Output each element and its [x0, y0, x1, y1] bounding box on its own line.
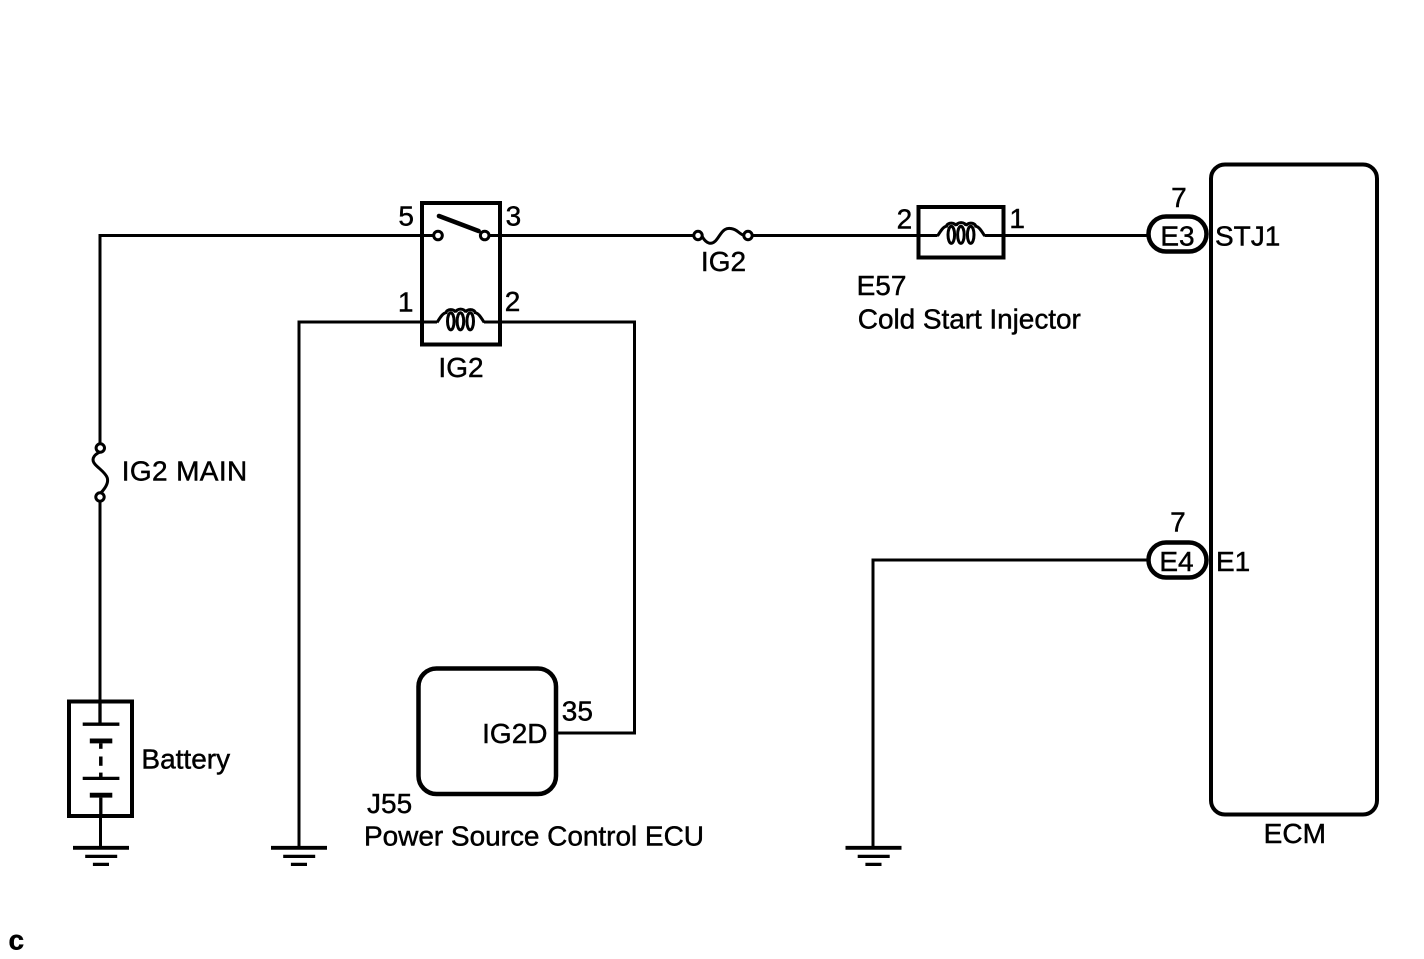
- wire fuse IG2 to E57 pin 2: [752, 234, 918, 237]
- fuse IG2 MAIN (vertical): [93, 444, 108, 501]
- svg-text:IG2 MAIN: IG2 MAIN: [122, 456, 248, 487]
- svg-text:IG2: IG2: [438, 352, 483, 383]
- fuse IG2 (horizontal): [694, 228, 752, 243]
- E57 cold start injector box: [919, 207, 1004, 258]
- svg-text:7: 7: [1170, 507, 1186, 538]
- svg-text:E3: E3: [1160, 221, 1194, 252]
- svg-text:Power Source Control ECU: Power Source Control ECU: [364, 820, 704, 851]
- svg-text:5: 5: [398, 201, 414, 232]
- relay coil (between pins 1 and 2): [422, 309, 500, 330]
- svg-text:7: 7: [1171, 182, 1187, 213]
- svg-text:J55: J55: [367, 788, 412, 819]
- svg-text:STJ1: STJ1: [1215, 221, 1280, 252]
- battery box: [69, 702, 132, 817]
- svg-text:E57: E57: [857, 270, 907, 301]
- wire battery positive to relay pin 5 (left vertical + top horizontal): [100, 236, 422, 444]
- wire ECM E4 connector to ground: [873, 560, 1147, 847]
- svg-text:2: 2: [897, 204, 913, 235]
- wire IG2 MAIN fuse to battery: [99, 501, 102, 701]
- relay IG2 box: [422, 203, 500, 345]
- battery internal symbol: [83, 702, 120, 817]
- svg-text:ECM: ECM: [1264, 818, 1326, 849]
- svg-text:c: c: [9, 925, 25, 956]
- svg-text:2: 2: [505, 286, 521, 317]
- svg-text:1: 1: [398, 287, 414, 318]
- connector E3 oval: [1149, 217, 1207, 252]
- svg-text:E4: E4: [1159, 546, 1193, 577]
- ground (battery): [73, 848, 129, 865]
- E57 injector coil: [919, 223, 1004, 244]
- svg-text:3: 3: [506, 201, 522, 232]
- wire E57 pin 1 to ECM E3 connector: [1004, 234, 1148, 237]
- svg-text:E1: E1: [1216, 546, 1250, 577]
- svg-text:1: 1: [1009, 203, 1025, 234]
- wire relay pin 3 to fuse IG2: [500, 234, 694, 237]
- svg-text:Cold Start Injector: Cold Start Injector: [858, 304, 1081, 335]
- ECM box: [1211, 165, 1377, 815]
- ground (relay pin 1): [271, 848, 327, 865]
- relay switch blade: [439, 216, 479, 231]
- svg-text:Battery: Battery: [141, 744, 230, 775]
- J55 power source control ECU box: [419, 669, 557, 795]
- wire relay pin 2 to J55 pin 35: [500, 322, 635, 733]
- relay switch contact pin 3: [480, 231, 500, 240]
- wire relay pin 1 to ground: [299, 322, 422, 847]
- wire battery negative to ground: [99, 816, 102, 847]
- ground (ECM E4): [846, 848, 902, 865]
- svg-text:IG2D: IG2D: [482, 718, 547, 749]
- connector E4 oval: [1149, 543, 1207, 578]
- relay switch contact pin 5: [422, 231, 442, 240]
- svg-text:IG2: IG2: [701, 246, 746, 277]
- svg-text:35: 35: [562, 696, 593, 727]
